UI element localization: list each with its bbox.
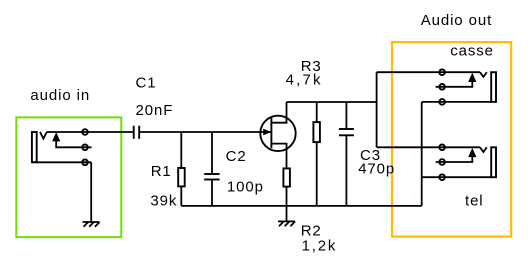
svg-text:audio in: audio in <box>30 87 90 104</box>
svg-text:4,7k: 4,7k <box>286 72 323 89</box>
svg-text:Audio out: Audio out <box>421 12 492 29</box>
svg-text:C1: C1 <box>136 75 157 92</box>
svg-text:100p: 100p <box>227 179 264 196</box>
svg-text:R1: R1 <box>151 163 172 180</box>
svg-text:20nF: 20nF <box>136 102 174 119</box>
svg-text:39k: 39k <box>150 192 177 209</box>
svg-text:1,2k: 1,2k <box>302 237 338 254</box>
svg-text:casse: casse <box>450 43 494 60</box>
svg-text:470p: 470p <box>358 160 395 177</box>
svg-text:tel: tel <box>465 193 484 210</box>
svg-text:C2: C2 <box>226 148 247 165</box>
